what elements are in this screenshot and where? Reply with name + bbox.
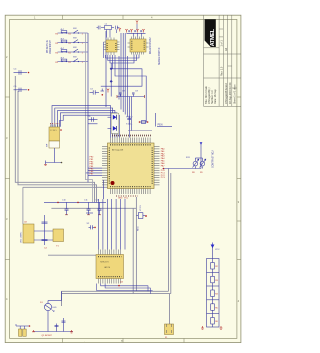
svg-text:PEN: PEN — [158, 124, 163, 127]
svg-text:OSC 16MHz: OSC 16MHz — [21, 232, 23, 243]
svg-text:LED: LED — [53, 307, 58, 309]
svg-text:Q1 BC847: Q1 BC847 — [42, 335, 53, 337]
svg-text:USER INPUT: USER INPUT — [50, 39, 52, 54]
svg-text:74HC573: 74HC573 — [100, 262, 109, 264]
svg-text:SERIAL PORT IF: SERIAL PORT IF — [158, 47, 161, 65]
svg-text:18-Sep-2003 10:24: 18-Sep-2003 10:24 — [229, 82, 232, 104]
svg-text:1 2 3 4 5: 1 2 3 4 5 — [50, 130, 57, 132]
svg-text:REG: REG — [138, 226, 140, 231]
svg-text:VCC: VCC — [215, 249, 220, 251]
svg-text:1 of 1: 1 of 1 — [221, 40, 224, 47]
svg-text:PB KEYS 4x: PB KEYS 4x — [47, 39, 49, 53]
svg-text:Sheet 1 of 1 docs: Sheet 1 of 1 docs — [233, 84, 236, 104]
svg-text:Rev: 1.0: Rev: 1.0 — [221, 66, 224, 76]
svg-text:ATmega128: ATmega128 — [112, 149, 124, 152]
svg-text:LATCH: LATCH — [104, 266, 111, 269]
svg-text:VCC3: VCC3 — [140, 205, 142, 211]
svg-text:ATMEL: ATMEL — [210, 28, 216, 46]
svg-text:ATmega128 board: ATmega128 board — [225, 83, 228, 104]
svg-text:CONTRAST ADJ: CONTRAST ADJ — [212, 151, 215, 168]
svg-text:Date: 18-Sep: Date: 18-Sep — [214, 89, 217, 104]
svg-text:MAX232 RS232: MAX232 RS232 — [149, 37, 152, 54]
svg-text:XTAL1: XTAL1 — [126, 123, 133, 126]
svg-text:XTAL2: XTAL2 — [126, 116, 133, 119]
